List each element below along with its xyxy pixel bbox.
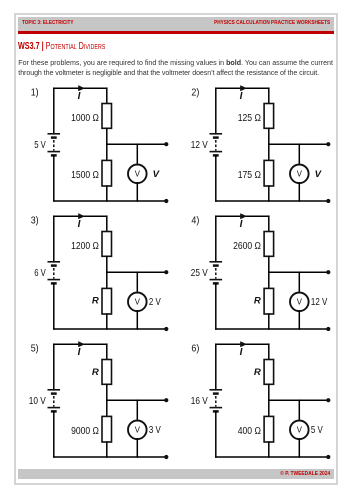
wire: bottom rail circuit 3 <box>54 328 167 330</box>
wire: left branch lower (battery - to bottom) <box>53 155 55 201</box>
svg-text:4): 4) <box>191 215 199 226</box>
svg-text:5 V: 5 V <box>311 424 323 436</box>
svg-text:3): 3) <box>31 215 39 226</box>
node: output terminal upper (dot) <box>164 142 168 146</box>
svg-text:V: V <box>135 426 141 435</box>
svg-text:12 V: 12 V <box>191 139 208 151</box>
svg-text:1500 Ω: 1500 Ω <box>71 169 99 181</box>
resistor 1500 Ω (bottom, circuit 1) <box>102 160 112 186</box>
battery B4 (25 V) <box>210 262 223 284</box>
wire: voltmeter bottom lead <box>298 183 300 201</box>
battery B1 (5 V) <box>48 134 61 156</box>
current arrow on top rail <box>240 213 247 219</box>
svg-text:2 V: 2 V <box>149 296 161 308</box>
wire: mid node rail to output terminal <box>107 399 167 401</box>
wire: right chain middle segment (node to mid) <box>106 256 108 288</box>
battery B2 (12 V) <box>210 134 223 156</box>
wire: right chain top segment <box>106 216 108 231</box>
svg-text:I: I <box>240 91 243 102</box>
resistor 175 Ω (bottom, circuit 2) <box>264 160 274 186</box>
wire: left branch upper (battery + to top) <box>215 88 217 134</box>
wire: voltmeter bottom lead <box>136 439 138 457</box>
wire: top rail circuit 3 <box>54 215 107 217</box>
wire: top rail circuit 1 <box>54 87 107 89</box>
wire: voltmeter bottom lead <box>136 311 138 329</box>
svg-text:2): 2) <box>191 87 199 98</box>
resistor R (top, circuit 6) <box>264 360 274 385</box>
wire: mid node rail to output terminal <box>269 271 329 273</box>
svg-text:V: V <box>153 169 161 180</box>
node: output terminal upper (dot) <box>164 270 168 274</box>
current arrow on top rail <box>78 341 85 347</box>
svg-text:R: R <box>254 295 261 306</box>
node: output terminal upper (dot) <box>326 398 330 402</box>
wire: right chain middle segment (node to mid) <box>268 384 270 416</box>
svg-text:I: I <box>78 347 81 358</box>
wire: bottom rail circuit 6 <box>216 456 328 458</box>
wire: right chain middle segment (node to mid) <box>106 384 108 416</box>
wire: right chain bottom segment <box>106 442 108 457</box>
wire: mid node rail to output terminal <box>107 143 167 145</box>
wire: voltmeter bottom lead <box>136 183 138 201</box>
voltmeter V (circuit 6) <box>290 421 309 440</box>
wire: right chain bottom segment <box>106 314 108 329</box>
svg-text:1): 1) <box>31 87 39 98</box>
current arrow on top rail <box>240 341 247 347</box>
resistor 400 Ω (bottom, circuit 6) <box>264 416 274 442</box>
wire: right chain top segment <box>106 88 108 103</box>
svg-text:5 V: 5 V <box>34 139 46 151</box>
resistor R (bottom, circuit 4) <box>264 288 274 314</box>
wire: right chain bottom segment <box>268 442 270 457</box>
node: output terminal upper (dot) <box>326 142 330 146</box>
battery B5 (10 V) <box>48 390 61 412</box>
svg-text:I: I <box>78 219 81 230</box>
svg-text:10 V: 10 V <box>29 395 46 407</box>
node: output terminal lower (dot) <box>326 455 330 459</box>
wire: top rail circuit 4 <box>216 215 269 217</box>
svg-text:V: V <box>315 169 323 180</box>
wire: voltmeter top lead <box>136 400 138 420</box>
battery B3 (6 V) <box>48 262 61 284</box>
resistor 125 Ω (top, circuit 2) <box>264 104 274 129</box>
svg-text:175 Ω: 175 Ω <box>238 169 261 181</box>
svg-text:1200 Ω: 1200 Ω <box>71 240 99 252</box>
node: output terminal lower (dot) <box>164 199 168 203</box>
wire: voltmeter top lead <box>136 144 138 164</box>
battery B6 (16 V) <box>210 390 223 412</box>
wire: top rail circuit 2 <box>216 87 269 89</box>
node: output terminal upper (dot) <box>164 398 168 402</box>
node: output terminal lower (dot) <box>164 455 168 459</box>
wire: right chain top segment <box>268 344 270 359</box>
svg-text:6): 6) <box>191 343 199 354</box>
node: output terminal lower (dot) <box>326 199 330 203</box>
wire: left branch upper (battery + to top) <box>53 88 55 134</box>
wire: left branch upper (battery + to top) <box>53 216 55 262</box>
svg-text:V: V <box>297 426 303 435</box>
wire: mid node rail to output terminal <box>269 399 329 401</box>
wire: mid node rail to output terminal <box>269 143 329 145</box>
wire: right chain top segment <box>106 344 108 359</box>
resistor 1200 Ω (top, circuit 3) <box>102 232 112 257</box>
svg-text:V: V <box>297 298 303 307</box>
svg-text:I: I <box>240 347 243 358</box>
voltmeter V (circuit 1) <box>128 165 147 184</box>
node: output terminal lower (dot) <box>326 327 330 331</box>
wire: right chain bottom segment <box>268 314 270 329</box>
wire: right chain top segment <box>268 216 270 231</box>
node: output terminal lower (dot) <box>164 327 168 331</box>
voltmeter V (circuit 2) <box>290 165 309 184</box>
wire: voltmeter bottom lead <box>298 439 300 457</box>
wire: right chain middle segment (node to mid) <box>268 128 270 160</box>
wire: left branch upper (battery + to top) <box>215 216 217 262</box>
node: output terminal upper (dot) <box>326 270 330 274</box>
wire: right chain bottom segment <box>268 186 270 201</box>
svg-text:R: R <box>92 295 99 306</box>
svg-text:6 V: 6 V <box>34 267 46 279</box>
svg-text:V: V <box>297 170 303 179</box>
svg-text:16 V: 16 V <box>191 395 208 407</box>
current arrow on top rail <box>240 85 247 91</box>
wire: voltmeter top lead <box>136 272 138 292</box>
svg-text:9000 Ω: 9000 Ω <box>71 425 99 437</box>
resistor 9000 Ω (bottom, circuit 5) <box>102 416 112 442</box>
wire: top rail circuit 5 <box>54 343 107 345</box>
svg-text:25 V: 25 V <box>191 267 208 279</box>
resistor 2600 Ω (top, circuit 4) <box>264 232 274 257</box>
wire: left branch lower (battery - to bottom) <box>53 411 55 457</box>
wire: left branch lower (battery - to bottom) <box>215 411 217 457</box>
wire: bottom rail circuit 2 <box>216 200 328 202</box>
svg-text:I: I <box>78 91 81 102</box>
svg-text:400 Ω: 400 Ω <box>238 425 261 437</box>
svg-text:3 V: 3 V <box>149 424 161 436</box>
wire: bottom rail circuit 1 <box>54 200 167 202</box>
wire: voltmeter top lead <box>298 144 300 164</box>
wire: right chain middle segment (node to mid) <box>106 128 108 160</box>
svg-text:125 Ω: 125 Ω <box>238 112 261 124</box>
resistor R (bottom, circuit 3) <box>102 288 112 314</box>
wire: left branch lower (battery - to bottom) <box>215 155 217 201</box>
wire: mid node rail to output terminal <box>107 271 167 273</box>
resistor 1000 Ω (top, circuit 1) <box>102 104 112 129</box>
wire: right chain middle segment (node to mid) <box>268 256 270 288</box>
wire: voltmeter top lead <box>298 272 300 292</box>
resistor R (top, circuit 5) <box>102 360 112 385</box>
wire: right chain bottom segment <box>106 186 108 201</box>
wire: voltmeter top lead <box>298 400 300 420</box>
wire: left branch upper (battery + to top) <box>53 344 55 390</box>
svg-text:V: V <box>135 298 141 307</box>
svg-text:1000 Ω: 1000 Ω <box>71 112 99 124</box>
svg-text:5): 5) <box>31 343 39 354</box>
wire: right chain top segment <box>268 88 270 103</box>
svg-text:R: R <box>254 367 261 378</box>
svg-text:I: I <box>240 219 243 230</box>
current arrow on top rail <box>78 85 85 91</box>
svg-text:V: V <box>135 170 141 179</box>
current arrow on top rail <box>78 213 85 219</box>
svg-text:2600 Ω: 2600 Ω <box>233 240 261 252</box>
wire: left branch lower (battery - to bottom) <box>53 283 55 329</box>
wire: left branch lower (battery - to bottom) <box>215 283 217 329</box>
wire: top rail circuit 6 <box>216 343 269 345</box>
voltmeter V (circuit 5) <box>128 421 147 440</box>
wire: bottom rail circuit 5 <box>54 456 167 458</box>
wire: bottom rail circuit 4 <box>216 328 328 330</box>
svg-text:12 V: 12 V <box>311 296 327 308</box>
svg-text:R: R <box>92 367 99 378</box>
wire: left branch upper (battery + to top) <box>215 344 217 390</box>
wire: voltmeter bottom lead <box>298 311 300 329</box>
voltmeter V (circuit 4) <box>290 293 309 312</box>
voltmeter V (circuit 3) <box>128 293 147 312</box>
